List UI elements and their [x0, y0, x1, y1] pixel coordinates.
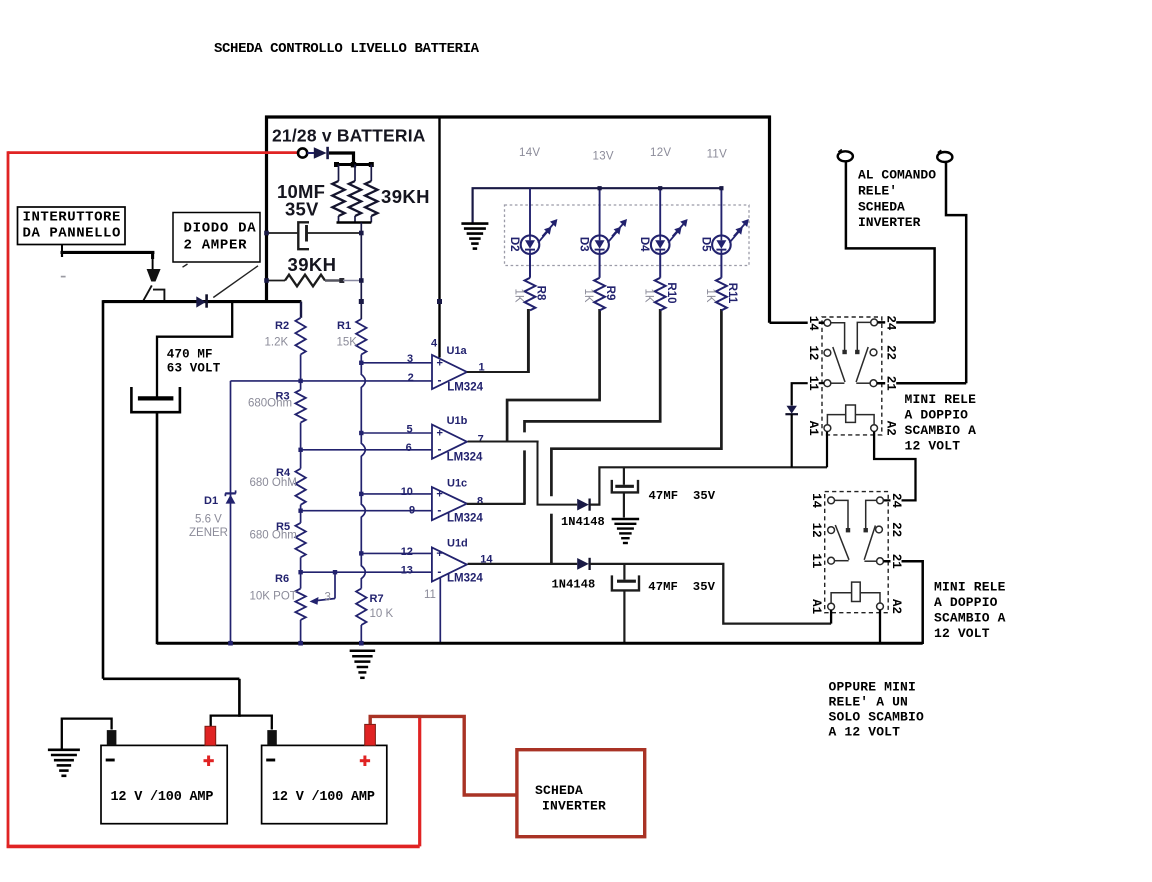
battery ground symbol	[62, 719, 112, 749]
wire relay1 A1 down	[826, 432, 828, 468]
svg-text:11: 11	[806, 376, 820, 391]
op-amp U1a	[432, 355, 467, 389]
resistor R8	[529, 253, 531, 277]
capacitor 10MF	[298, 222, 309, 249]
ground symbol main	[350, 650, 376, 653]
red wire left vertical	[7, 151, 10, 848]
svg-text:13: 13	[401, 565, 413, 577]
svg-text:22: 22	[884, 345, 898, 360]
relay 2 (mini rele doppio scambio)	[825, 492, 889, 613]
box SCHEDA INVERTER	[517, 750, 645, 837]
svg-text:1N4148: 1N4148	[561, 515, 605, 529]
svg-text:R10: R10	[665, 282, 677, 303]
relay2 pin labels	[811, 492, 822, 509]
svg-text:12 V /100 AMP: 12 V /100 AMP	[111, 790, 214, 805]
svg-text:MINI RELE: MINI RELE	[934, 580, 1006, 595]
relay1 contact 24	[857, 322, 870, 350]
wire U1c output pin8	[467, 503, 526, 505]
svg-text:1K: 1K	[704, 288, 716, 302]
board box top edge	[265, 115, 771, 118]
svg-text:A2: A2	[884, 421, 898, 436]
svg-text:RELE': RELE'	[858, 184, 897, 199]
svg-text:D5: D5	[699, 237, 711, 252]
wire 10MF cap to node	[307, 232, 362, 234]
svg-text:10 K: 10 K	[370, 608, 394, 620]
junction dots	[298, 379, 302, 383]
relay1 pole 21	[856, 382, 870, 384]
svg-text:2 AMPER: 2 AMPER	[184, 238, 248, 254]
wire pin6	[301, 449, 433, 451]
svg-text:21/28 v BATTERIA: 21/28 v BATTERIA	[272, 126, 426, 146]
diode 1N4148 #1	[577, 499, 589, 511]
wire board edge to relay1 pin14	[770, 322, 825, 325]
svg-text:OPPURE MINI: OPPURE MINI	[829, 680, 916, 695]
resistor R6 pot	[300, 572, 302, 588]
wire to battery link	[103, 677, 239, 680]
input diode	[307, 152, 314, 154]
svg-text:39KH: 39KH	[381, 186, 430, 207]
relay2 blade 12	[835, 525, 849, 560]
relay1 blade 12	[833, 347, 845, 382]
svg-text:5.6 V: 5.6 V	[195, 514, 222, 526]
svg-text:5: 5	[407, 423, 413, 435]
zener D1	[225, 492, 236, 494]
svg-text:+: +	[437, 357, 443, 369]
svg-text:ZENER: ZENER	[189, 527, 228, 539]
relay1 pin labels	[808, 315, 819, 332]
wire R8 lead (thick)	[527, 309, 530, 373]
connector circle (battery input)	[298, 148, 307, 157]
svg-text:4: 4	[431, 337, 438, 349]
wire terminal2 to relay1 pin21	[946, 162, 966, 383]
svg-text:680 OhM: 680 OhM	[250, 477, 297, 489]
pot wiper arrow	[334, 572, 336, 598]
wire relay1 pin11 to flyback diode	[792, 383, 824, 405]
wire center column with crossover hops	[361, 355, 365, 589]
switch arrow	[151, 252, 154, 259]
wire U1d pin11 to gnd bus	[439, 578, 441, 644]
resistor 39KH horizontal	[267, 280, 286, 282]
svg-text:R11: R11	[726, 283, 738, 304]
relay2 pole 21	[864, 560, 876, 562]
svg-text:12V: 12V	[650, 147, 671, 159]
wire D: R11 to U1d output (with gap)	[551, 309, 721, 496]
svg-text:47MF 35V: 47MF 35V	[648, 580, 715, 594]
svg-text:21: 21	[884, 376, 898, 391]
switch blade	[143, 285, 152, 301]
svg-text:3: 3	[325, 592, 331, 604]
wire diode2 to relay2 A1	[590, 564, 832, 624]
red wire bottom bus	[7, 845, 420, 849]
svg-text:U1c: U1c	[447, 478, 467, 490]
svg-text:SCHEDA: SCHEDA	[535, 783, 583, 798]
wire 470MF cap to gnd bus	[156, 412, 159, 644]
svg-text:R7: R7	[370, 593, 384, 605]
wire pin12	[361, 552, 433, 554]
svg-text:10: 10	[401, 486, 413, 498]
svg-text:1K: 1K	[643, 288, 655, 302]
svg-text:D4: D4	[638, 237, 650, 252]
svg-text:D2: D2	[508, 237, 520, 252]
wire pin5	[361, 432, 433, 434]
svg-text:39KH: 39KH	[288, 254, 337, 275]
resistor R11	[720, 253, 722, 277]
svg-text:-: -	[437, 503, 441, 517]
svg-text:LM324: LM324	[447, 573, 483, 585]
relay1 coil	[846, 405, 856, 422]
svg-text:11: 11	[809, 553, 823, 568]
op-amp U1d	[432, 548, 467, 582]
svg-text:U1d: U1d	[447, 538, 468, 550]
svg-text:R2: R2	[275, 320, 289, 332]
svg-text:11V: 11V	[707, 149, 728, 161]
flyback diode (relay1)	[787, 406, 797, 414]
wire relay1 pin24	[878, 321, 935, 324]
LED supply bus	[473, 188, 722, 222]
wire relay2 A1 down	[830, 610, 832, 624]
wire pin10	[361, 493, 433, 495]
wire pin9	[301, 510, 433, 512]
svg-text:12: 12	[806, 345, 820, 360]
svg-text:8: 8	[477, 496, 483, 508]
svg-text:SCHEDA CONTROLLO LIVELLO BATTE: SCHEDA CONTROLLO LIVELLO BATTERIA	[214, 41, 480, 57]
svg-text:DA PANNELLO: DA PANNELLO	[23, 226, 121, 242]
svg-text:SCHEDA: SCHEDA	[858, 199, 905, 214]
svg-text:INVERTER: INVERTER	[542, 798, 606, 813]
wire switch to board (y302)	[103, 300, 301, 303]
svg-text:R1: R1	[337, 320, 351, 332]
svg-text:DIODO DA: DIODO DA	[184, 221, 257, 237]
resistor R1	[356, 319, 366, 355]
board box right edge	[768, 116, 771, 323]
svg-text:6: 6	[406, 442, 412, 454]
svg-text:13V: 13V	[593, 151, 614, 163]
svg-text:3: 3	[407, 353, 413, 365]
svg-text:A DOPPIO: A DOPPIO	[934, 595, 998, 610]
relay2 pole 11	[835, 560, 849, 562]
svg-text:U1a: U1a	[447, 345, 468, 357]
svg-text:47MF 35V: 47MF 35V	[649, 489, 716, 503]
wire relay2 pin21 to gnd bus	[883, 561, 922, 644]
svg-text:+: +	[436, 489, 442, 501]
wire diode1 to relay1 A1	[590, 467, 827, 504]
svg-text:680 Ohm: 680 Ohm	[250, 530, 297, 542]
resistor R7	[356, 589, 366, 626]
svg-text:D3: D3	[578, 237, 590, 252]
wire node column x361	[360, 223, 362, 320]
svg-text:15K: 15K	[337, 337, 358, 349]
red wire battery2+ to inverter	[370, 716, 515, 795]
svg-text:A 12 VOLT: A 12 VOLT	[829, 725, 901, 740]
capacitor 470MF	[138, 396, 174, 400]
svg-text:63 VOLT: 63 VOLT	[167, 362, 221, 376]
box DIODO DA 2 AMPER	[173, 213, 260, 263]
op-amp U1c	[432, 487, 467, 520]
svg-text:A2: A2	[889, 599, 903, 614]
svg-text:INVERTER: INVERTER	[858, 215, 921, 230]
svg-text:680Ohm: 680Ohm	[248, 397, 292, 409]
svg-text:LM324: LM324	[447, 381, 483, 393]
wire connector to 39KH bank	[329, 153, 354, 165]
svg-text:22: 22	[889, 522, 903, 537]
svg-text:12 VOLT: 12 VOLT	[934, 626, 990, 641]
svg-text:1.2K: 1.2K	[265, 337, 289, 349]
svg-text:R8: R8	[535, 286, 547, 301]
resistor 39KH c	[370, 165, 372, 182]
svg-text:+: +	[437, 428, 443, 440]
ground under 47MF #1	[612, 518, 640, 520]
svg-text:24: 24	[884, 315, 898, 331]
wire left edge to 10MF cap	[267, 232, 298, 234]
wire pin13	[301, 571, 433, 573]
svg-text:-: -	[437, 564, 441, 578]
left drop wire x103	[102, 300, 105, 679]
wire relay2 A2 down	[879, 610, 881, 644]
svg-text:A1: A1	[806, 421, 820, 436]
wire U1d output pin14	[468, 563, 578, 565]
svg-text:-: -	[438, 442, 442, 456]
relay2 blade 22	[864, 526, 875, 560]
box INTERUTTORE DA PANNELLO	[18, 207, 126, 245]
svg-text:-: -	[438, 373, 442, 387]
39KH bank bottom bus	[337, 221, 372, 224]
capacitor 47MF #1	[623, 467, 625, 485]
resistor R4	[300, 450, 302, 469]
resistor R5	[300, 511, 302, 523]
svg-text:35V: 35V	[285, 199, 319, 220]
node dots	[264, 231, 269, 236]
ground at LED bus	[461, 222, 488, 225]
svg-text:SOLO SCAMBIO: SOLO SCAMBIO	[829, 710, 924, 725]
svg-text:R6: R6	[275, 573, 289, 585]
switch contact	[153, 290, 164, 301]
relay1 blade 22	[856, 347, 868, 382]
svg-text:R9: R9	[604, 286, 616, 301]
board box left edge	[265, 116, 268, 304]
battery 1	[101, 745, 227, 823]
red wire riser to battery link	[418, 716, 421, 846]
relay1 pole 11	[831, 382, 845, 384]
svg-text:2: 2	[408, 372, 414, 384]
LED D2	[529, 188, 531, 236]
wire C: pin7 path down to diode	[538, 442, 578, 505]
diode DIODO DA 2 AMPER symbol	[196, 296, 206, 307]
resistor R2	[300, 302, 302, 318]
terminal circle 1	[838, 151, 853, 161]
svg-text:14: 14	[806, 316, 820, 332]
svg-text:24: 24	[889, 493, 903, 509]
svg-text:10K POT: 10K POT	[250, 591, 297, 603]
LED D5	[720, 188, 722, 236]
svg-text:AL COMANDO: AL COMANDO	[858, 167, 936, 182]
wire U1b output pin7	[468, 441, 539, 443]
terminal circle 2	[937, 152, 952, 162]
resistor 39KH a	[338, 165, 340, 182]
relay2 contact 24	[866, 500, 877, 528]
wire jog to 470MF cap	[157, 303, 232, 397]
small dash	[61, 276, 66, 278]
LED D4	[659, 188, 661, 236]
svg-text:D1: D1	[204, 495, 218, 507]
wire B: R10 to U1c output (with gap)	[525, 309, 661, 432]
pointer line from DIODO box	[213, 266, 258, 298]
svg-text:SCAMBIO A: SCAMBIO A	[905, 423, 977, 438]
red wire top horizontal	[8, 151, 298, 154]
resistor R9	[599, 253, 601, 277]
svg-text:12 V /100 AMP: 12 V /100 AMP	[272, 790, 375, 805]
svg-text:12 VOLT: 12 VOLT	[905, 438, 961, 453]
battery 2	[262, 745, 387, 823]
svg-text:A DOPPIO: A DOPPIO	[905, 408, 969, 423]
resistor R10	[659, 253, 661, 277]
svg-text:11: 11	[424, 589, 436, 601]
wire pin2	[231, 380, 434, 382]
relay 1 (mini rele doppio scambio)	[822, 317, 882, 435]
wire pin2 net left branch	[230, 381, 232, 644]
battery link wire	[211, 716, 272, 730]
wire U1a output pin1	[467, 371, 530, 373]
relay1 contact 14	[831, 323, 845, 350]
svg-text:14: 14	[809, 493, 823, 509]
svg-text:12: 12	[809, 523, 823, 538]
wire relay1 A2 to relay2 pin24	[874, 432, 915, 501]
svg-text:RELE' A UN: RELE' A UN	[829, 695, 909, 710]
dotted LED box	[505, 205, 750, 266]
svg-text:MINI RELE: MINI RELE	[905, 392, 977, 407]
svg-text:U1b: U1b	[447, 415, 468, 427]
svg-text:LM324: LM324	[447, 512, 483, 524]
ground bus	[157, 642, 923, 645]
diode 1N4148 #2	[577, 558, 589, 570]
svg-text:+: +	[436, 548, 442, 560]
relay2 coil	[852, 582, 861, 601]
wire terminal1 to relay1 pin24	[846, 162, 935, 323]
svg-text:21: 21	[889, 554, 903, 569]
LED D3	[599, 188, 601, 236]
svg-text:SCAMBIO A: SCAMBIO A	[934, 611, 1006, 626]
wire from INTERUTTORE box	[61, 245, 63, 252]
svg-text:12: 12	[401, 546, 413, 558]
wire pin3	[361, 362, 433, 364]
svg-text:9: 9	[409, 505, 415, 517]
svg-text:14V: 14V	[519, 147, 540, 159]
svg-text:1N4148: 1N4148	[552, 578, 596, 592]
svg-text:LM324: LM324	[447, 451, 483, 463]
svg-text:1K: 1K	[513, 288, 525, 302]
svg-text:1K: 1K	[582, 288, 594, 302]
V+ rail to pin 4 (wire)	[438, 117, 440, 358]
wire relay1 pin21	[877, 382, 966, 385]
39KH bank top bus	[335, 163, 374, 166]
svg-text:A1: A1	[809, 599, 823, 614]
svg-text:470 MF: 470 MF	[167, 348, 213, 362]
resistor 39KH b	[354, 165, 356, 182]
relay2 contact 14	[835, 500, 849, 528]
capacitor 47MF #2	[623, 564, 625, 580]
op-amp U1b	[432, 425, 467, 459]
wire A: R9 to U1b output	[507, 309, 599, 442]
svg-text:INTERUTTORE: INTERUTTORE	[23, 210, 121, 226]
resistor R3	[300, 381, 302, 390]
svg-text:7: 7	[478, 433, 484, 445]
